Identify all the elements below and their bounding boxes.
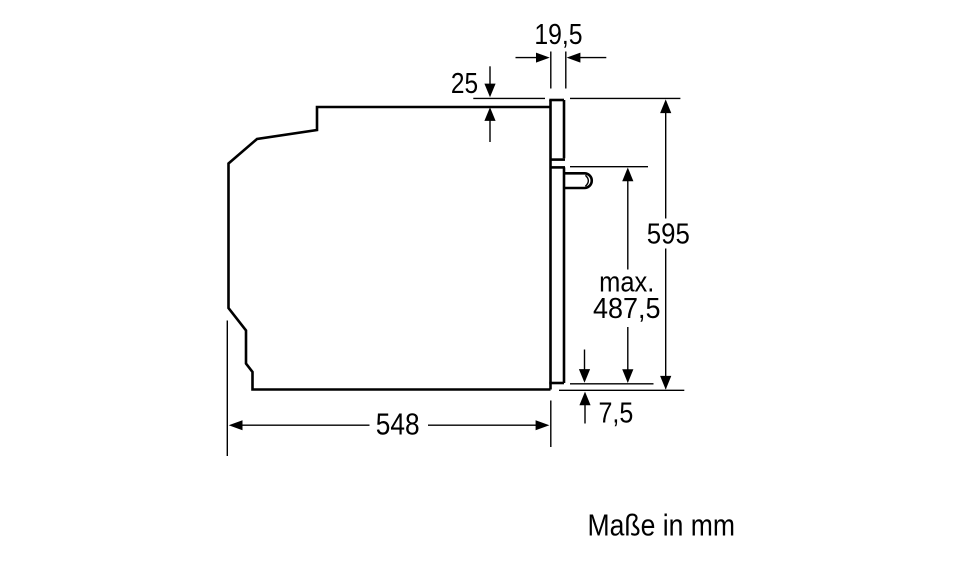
dimension max 487,5 bottom arrowhead: [622, 369, 633, 383]
dimension 19,5 left arrowhead: [536, 53, 550, 63]
dimension 7,5 up arrow line: [584, 405, 586, 424]
door seam top line: [551, 158, 566, 161]
svg-text:19,5: 19,5: [534, 19, 582, 51]
dimension 25 down arrow line: [489, 66, 491, 84]
svg-text:25: 25: [451, 68, 478, 100]
dimension 19,5 extension line left: [550, 52, 552, 89]
dimension 595 top arrowhead: [660, 99, 671, 113]
svg-text:487,5: 487,5: [593, 293, 661, 325]
oven body outline: [229, 107, 551, 390]
door handle cap seam: [585, 175, 588, 186]
dimension max 487,5 line lower: [627, 327, 629, 382]
door seam bottom line: [551, 166, 566, 169]
dimension 548 extension line right: [550, 401, 552, 448]
svg-text:548: 548: [376, 408, 420, 442]
dimension 7,5 up arrowhead: [579, 392, 590, 406]
dimension 595 line lower: [665, 249, 667, 389]
front panel top edge: [549, 99, 564, 102]
front panel right edge lower (door front): [563, 167, 566, 383]
body bottom extension line: [559, 389, 684, 391]
dimension max 487,5 line upper: [627, 170, 629, 270]
dimension 595 bottom arrowhead: [660, 376, 671, 390]
svg-text:595: 595: [647, 219, 690, 251]
dimension 548 left arrowhead: [229, 420, 243, 430]
svg-text:Maße in mm: Maße in mm: [588, 508, 736, 543]
front panel left edge: [549, 100, 552, 390]
dimension 548 right arrowhead: [536, 420, 550, 430]
door bottom edge: [549, 382, 564, 385]
top extension line right segment: [570, 97, 680, 99]
svg-text:7,5: 7,5: [599, 398, 634, 430]
dimension 19,5 right arrow line: [580, 57, 606, 59]
dimension 548 line right segment: [428, 424, 537, 426]
dimension 548 line left segment: [241, 424, 370, 426]
dimension 25 up arrowhead: [484, 107, 495, 121]
dimension 7,5 down arrow line: [584, 350, 586, 371]
dimension 548 extension line left: [226, 321, 228, 457]
top extension line left segment: [473, 97, 545, 99]
dimension 595 line upper: [665, 101, 667, 219]
dimension 7,5 down arrowhead: [579, 369, 590, 383]
door handle: [565, 173, 592, 188]
dimension 19,5 left arrow line: [516, 57, 538, 59]
front panel right edge upper: [563, 100, 566, 158]
dimension 25 up arrow line: [489, 120, 491, 142]
dimension max 487,5 top arrowhead: [622, 168, 633, 182]
dimension 19,5 extension line right: [565, 52, 567, 89]
door bottom extension line: [570, 383, 654, 385]
dimension 19,5 right arrowhead: [567, 53, 581, 63]
dimension 25 down arrowhead: [484, 84, 495, 98]
door top extension line: [570, 166, 648, 168]
